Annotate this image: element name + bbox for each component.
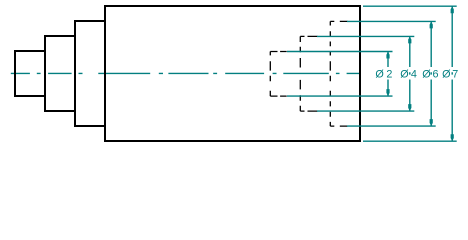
centerline (teal dash-dot axis) (11, 72, 360, 74)
dia4 extensions (317, 35, 414, 37)
dia7 arrows (451, 6, 454, 13)
main body (105, 6, 360, 141)
svg-text:7: 7 (452, 68, 458, 80)
svg-text:6: 6 (433, 68, 439, 80)
step1 small cylinder (15, 51, 45, 96)
dia4 dimension line (409, 36, 411, 111)
dimension labels (375, 68, 458, 80)
dia2 dimension line (387, 52, 389, 97)
bore1 (smallest, deepest) horizontals (270, 51, 286, 53)
svg-text:2: 2 (386, 68, 392, 80)
hidden bore lines (black dashed, 1px) (270, 21, 347, 126)
dia6 dimension line (430, 21, 432, 126)
dia6 extensions (347, 20, 436, 22)
stepped shaft outline (black solid, 2px) (15, 6, 360, 141)
arrowheads (teal) (386, 6, 453, 141)
dia4 arrows (408, 36, 411, 43)
svg-text:Ø: Ø (442, 68, 451, 80)
dia7 dimension line (451, 6, 453, 141)
dimension extension lines (teal solid) (287, 6, 457, 141)
dia2 arrows (386, 52, 389, 59)
svg-text:4: 4 (411, 68, 417, 80)
dia2 extensions (287, 51, 393, 53)
dia7 extensions (363, 5, 457, 7)
bore3 horizontals (330, 20, 347, 22)
bore1 vertical (hole bottom) (269, 52, 271, 97)
step3 cylinder (75, 21, 105, 126)
bore3 vertical (329, 21, 331, 126)
step2 cylinder (45, 36, 75, 111)
dia6 arrows (430, 21, 433, 28)
svg-text:Ø: Ø (375, 68, 384, 80)
bore2 vertical (299, 36, 301, 111)
svg-text:Ø: Ø (400, 68, 409, 80)
bore2 horizontals (300, 35, 317, 37)
svg-text:Ø: Ø (422, 68, 431, 80)
